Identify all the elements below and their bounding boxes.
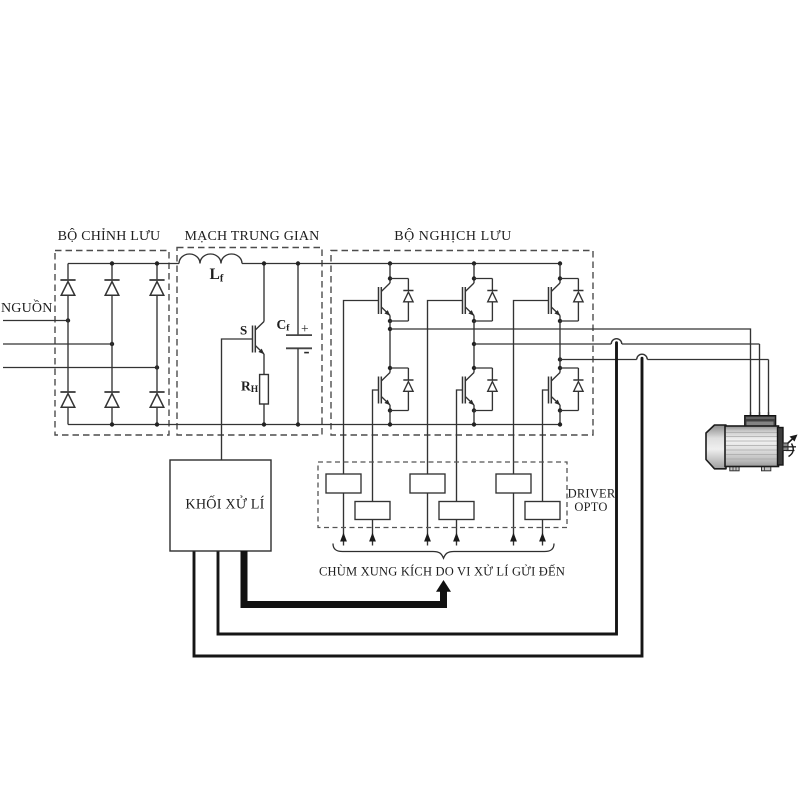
wire: brake IGBT gate lead [222,339,253,460]
wire: emitter lower C to negative bus [559,411,561,425]
svg-text:S: S [240,323,247,338]
junction: top bus to inverter leg A [388,261,392,265]
svg-text:BỘ NGHỊCH LƯU: BỘ NGHỊCH LƯU [394,227,512,244]
wire: gate lead lower IGBT leg A to driver [373,390,379,546]
wire: leg C midpoint vertical [559,321,561,353]
dashed box: inverter section BO NGHICH LUU [331,251,593,436]
junction: leg C on negative bus [558,422,562,426]
junction: phase C output node [558,357,562,361]
wire: rectifier leg 2 vertical [111,264,113,425]
wire: gate lead lower IGBT leg C to driver [543,390,549,546]
junction: leg A on negative bus [388,422,392,426]
wire: emitter tee to freewheel diode (upper C) [560,320,578,322]
transistor QC1 (upper IGBT leg C) [549,264,561,322]
wire: emitter lower A to negative bus [389,411,391,425]
current sensor hop on phase C [637,354,648,359]
wire: phase A output to motor [390,329,751,417]
junction: top bus to Cf [296,261,300,265]
diode DC2 (freewheeling, lower leg C) [573,368,583,411]
svg-text:OPTO: OPTO [574,500,607,514]
junction: top bus to inverter leg C [558,261,562,265]
diode D1 (top row, leg 1) [60,280,75,295]
junction: collector node lower leg B [472,366,476,370]
wire: emitter tee to freewheel diode (lower A) [390,410,408,412]
wire: collector tee to freewheel diode (upper A) [390,278,408,280]
block: KHOI XU LI (processor) [170,460,271,551]
capacitor Cf (DC-link electrolytic) [286,335,312,348]
junction: emitter node lower leg C [558,408,562,412]
polarity - mark [304,352,309,354]
junction: emitter node lower leg B [472,408,476,412]
wire: RH to bottom bus [263,404,265,425]
current sensor hop on phase B [611,339,622,344]
junction: emitter node upper leg A [388,319,392,323]
diode D3 (top row, leg 3) [149,280,164,295]
junction: collector node lower leg A [388,366,392,370]
opto-driver block U5 (lower) [439,502,474,520]
transistor QB1 (upper IGBT leg B) [463,264,475,322]
diode DB2 (freewheeling, lower leg B) [487,368,497,411]
wire: emitter lower B to negative bus [473,411,475,425]
resistor RH (brake resistor) [260,375,269,405]
wire: capacitor Cf top lead [297,264,299,336]
svg-text:BỘ CHỈNH LƯU: BỘ CHỈNH LƯU [58,227,161,244]
curly brace grouping gate pulses [333,544,554,559]
wire: leg B midpoint vertical [473,321,475,353]
wire: emitter tee to freewheel diode (lower B) [474,410,492,412]
junction: phase B output node [472,342,476,346]
transistor QC2 (lower IGBT leg C) [549,353,561,411]
junction: emitter node upper leg B [472,319,476,323]
wire: gate lead upper IGBT leg C to driver [514,301,549,546]
transistor S (brake chopper IGBT) [253,302,265,360]
junction: collector node upper leg C [558,276,562,280]
wire: gate lead lower IGBT leg B to driver [457,390,463,546]
thick arrow: gate pulse bus from processor to drivers [244,551,444,605]
junction: top bus to brake IGBT [262,261,266,265]
junction: collector node upper leg A [388,276,392,280]
wire: phase C output to motor (with sensor hop) [560,360,769,417]
wire: negative DC bus (bottom rail) [68,424,560,426]
junction: Cf to negative bus [296,422,300,426]
transistor QA2 (lower IGBT leg A) [379,353,391,411]
svg-text:MẠCH TRUNG GIAN: MẠCH TRUNG GIAN [185,229,320,244]
transistor QA1 (upper IGBT leg A) [379,264,391,322]
induction motor (3-phase) [706,416,796,471]
diode D6 (bottom row, leg 3) [149,392,164,407]
junction: top bus to inverter leg B [472,261,476,265]
junction: collector node lower leg C [558,366,562,370]
opto-driver block U6 (lower) [525,502,560,520]
diode DA1 (freewheeling, upper leg A) [403,279,413,322]
diode D2 (top row, leg 2) [104,280,119,295]
wire: emitter tee to freewheel diode (upper B) [474,320,492,322]
junction: emitter node upper leg C [558,319,562,323]
wire stubs into motor terminal box [751,412,769,417]
svg-text:KHỐI XỬ LÍ: KHỐI XỬ LÍ [185,495,264,513]
opto-driver block U1 (upper) [326,474,361,493]
junction: phase A output node [388,327,392,331]
wire: capacitor Cf bottom lead [297,348,299,424]
junction: RH to negative bus [262,422,266,426]
wire: collector tee to freewheel diode (upper C) [560,278,578,280]
wire: collector tee to freewheel diode (lower A) [390,367,408,369]
dashed box: DC-link section MACH TRUNG GIAN [177,248,322,436]
wire: current sensor 1 feedback (phase B) to processor [218,343,617,634]
wire: source phase 1 input [3,320,68,322]
wire: rectifier leg 3 vertical [156,264,158,425]
opto-driver block U3 (upper) [496,474,531,493]
junction: phase 1 to diode leg 1 [66,318,70,322]
opto-driver block U4 (lower) [355,502,390,520]
wire: collector tee to freewheel diode (lower C) [560,367,578,369]
diode DA2 (freewheeling, lower leg A) [403,368,413,411]
pulse input arrows into driver blocks [340,533,347,542]
dashed box: rectifier section BO CHINH LUU [55,251,169,436]
junction: emitter node lower leg A [388,408,392,412]
svg-text:CHÙM XUNG KÍCH DO VI XỬ LÍ GỬI: CHÙM XUNG KÍCH DO VI XỬ LÍ GỬI ĐẾN [319,564,565,579]
wire: emitter of S to resistor RH [263,360,265,375]
wire: gate lead upper IGBT leg A to driver [344,301,379,546]
diode D4 (bottom row, leg 1) [60,392,75,407]
wire: phase B output to motor (with sensor hop) [474,344,760,417]
wire: leg A midpoint vertical [389,321,391,353]
wire: emitter tee to freewheel diode (upper A) [390,320,408,322]
opto-driver block U2 (upper) [410,474,445,493]
svg-text:NGUỒN: NGUỒN [1,298,53,316]
junction dots rectifier legs on buses [110,261,114,265]
wire: emitter tee to freewheel diode (lower C) [560,410,578,412]
junction: phase 3 to diode leg 3 [155,365,159,369]
diode D5 (bottom row, leg 2) [104,392,119,407]
diode DB1 (freewheeling, upper leg B) [487,279,497,322]
wire: current sensor 2 feedback (phase C) to processor [194,358,642,656]
wire: brake chopper collector from top bus [263,264,265,303]
junction: leg B on negative bus [472,422,476,426]
wire: gate lead upper IGBT leg B to driver [428,301,463,546]
junction: collector node upper leg B [472,276,476,280]
transistor QB2 (lower IGBT leg B) [463,353,475,411]
wire: collector tee to freewheel diode (upper B) [474,278,492,280]
junction: phase 2 to diode leg 2 [110,342,114,346]
rotation arrow at motor shaft [789,444,794,457]
diode DC1 (freewheeling, upper leg C) [573,279,583,322]
wire: source phase 2 input [3,343,112,345]
wire: source phase 3 input [3,367,157,369]
dashed box: DRIVER OPTO [318,462,567,528]
wire: collector tee to freewheel diode (lower B) [474,367,492,369]
svg-text:+: + [301,321,309,336]
inductor Lf (filter choke) [179,254,242,263]
wire: rectifier leg 1 vertical [67,264,69,425]
wire: positive DC bus (top rail) [68,263,560,265]
svg-text:DRIVER: DRIVER [568,487,616,501]
